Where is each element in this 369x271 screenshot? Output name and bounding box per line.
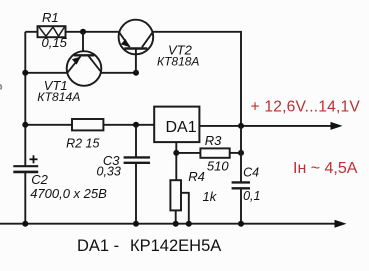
node: R4 on bottom line bbox=[173, 221, 179, 227]
node: C3 on bottom line bbox=[133, 221, 139, 227]
svg-text:0,33: 0,33 bbox=[97, 164, 121, 178]
label VT1 bbox=[44, 78, 68, 93]
svg-text:C2: C2 bbox=[31, 172, 48, 187]
op-amp U1: regulator DA1 bbox=[154, 107, 199, 143]
svg-text:C4: C4 bbox=[243, 165, 259, 179]
wire: R4 bottom lead bbox=[175, 210, 177, 223]
node: junction R3 / C4 rail bbox=[238, 150, 244, 156]
svg-text:КТ814А: КТ814А bbox=[37, 90, 80, 104]
svg-text:R3: R3 bbox=[205, 133, 222, 148]
label In ~ 4,5A bbox=[293, 160, 358, 177]
label R2 15 bbox=[66, 137, 99, 151]
label C3 bbox=[103, 153, 120, 168]
wire: bottom ground line with arrow bbox=[0, 220, 347, 228]
label KT818A bbox=[157, 55, 199, 69]
label KT814A bbox=[37, 90, 80, 104]
svg-text:+ 12,6V...14,1V: + 12,6V...14,1V bbox=[251, 99, 361, 116]
wire: input line rail to R2 bbox=[25, 124, 72, 126]
wire: left input rail upper segment bbox=[24, 32, 26, 166]
svg-text:КР142ЕН5А: КР142ЕН5А bbox=[130, 237, 221, 255]
label 510 bbox=[207, 159, 229, 174]
wire: C3 top lead bbox=[135, 125, 137, 157]
svg-text:КТ818А: КТ818А bbox=[157, 55, 199, 69]
node: junction VT2 collector / output bbox=[238, 123, 244, 129]
wire: C4 bottom lead bbox=[240, 188, 242, 223]
node: junction VT1 collector / VT2 base bbox=[133, 70, 139, 76]
wire: VT1 collector to VT2 base node bbox=[101, 72, 136, 74]
svg-text:0,1: 0,1 bbox=[243, 189, 260, 203]
label caption DA1 - KP142EH5A bbox=[77, 237, 221, 255]
wire: output rail down to C4 bbox=[240, 126, 242, 182]
node: R4 tap on bottom line bbox=[186, 221, 192, 227]
left scan edge artifact bbox=[0, 85, 1, 90]
label 0,1 bbox=[243, 189, 260, 203]
node: junction VT2 base line / input line bbox=[133, 122, 139, 128]
transistor VT2 bbox=[119, 20, 154, 73]
label R4 bbox=[188, 169, 205, 184]
label + of C2 bbox=[30, 155, 38, 163]
label C2 bbox=[31, 172, 48, 187]
resistor R2 bbox=[72, 119, 103, 130]
svg-text:DA1 -: DA1 - bbox=[77, 237, 119, 255]
label 0,15 bbox=[42, 35, 68, 50]
svg-text:4700,0 x 25В: 4700,0 x 25В bbox=[30, 186, 107, 201]
label 1k bbox=[203, 189, 218, 204]
wire: R2 to DA1 input bbox=[103, 124, 154, 126]
resistor R4 (trimmer with tap) bbox=[170, 180, 188, 224]
wire: C3 bottom lead bbox=[135, 163, 137, 224]
node: junction on rail at VT1 emitter bbox=[22, 70, 28, 76]
wire: DA1 ground pin bbox=[175, 142, 177, 180]
label C4 bbox=[243, 165, 259, 179]
wire: node to R3 bbox=[176, 152, 200, 154]
wire: R3 to output rail bbox=[230, 152, 241, 154]
node: junction DA1 gnd / R3 / R4 bbox=[173, 150, 179, 156]
svg-text:510: 510 bbox=[207, 159, 229, 174]
label 0,33 bbox=[97, 164, 121, 178]
svg-text:Iн ~ 4,5A: Iн ~ 4,5A bbox=[293, 160, 358, 177]
label +12,6V...14,1V bbox=[251, 99, 361, 116]
svg-text:R4: R4 bbox=[188, 169, 205, 184]
svg-text:1k: 1k bbox=[203, 189, 218, 204]
wire: rail to VT1 emitter bbox=[25, 72, 67, 74]
wire: VT2 collector to output corner bbox=[153, 32, 241, 126]
node: junction on rail at input line bbox=[22, 122, 28, 128]
svg-text:0,15: 0,15 bbox=[42, 35, 68, 50]
capacitor C3 bbox=[124, 157, 150, 162]
wire: left input rail lower segment (below C2) bbox=[24, 172, 26, 224]
capacitor C2 (electrolytic) bbox=[13, 166, 38, 172]
label VT2 bbox=[168, 42, 193, 57]
svg-text:DA1: DA1 bbox=[166, 119, 197, 136]
label 4700,0 x 25B bbox=[30, 186, 107, 201]
capacitor C4 bbox=[232, 182, 250, 188]
label R1 bbox=[42, 10, 59, 25]
transistor VT1 bbox=[67, 51, 102, 86]
resistor R3 bbox=[200, 148, 229, 157]
node: C2 on bottom line bbox=[22, 221, 28, 227]
svg-text:R2 15: R2 15 bbox=[66, 137, 99, 151]
wire: DA1 output line with arrow bbox=[199, 122, 342, 130]
label R3 bbox=[205, 133, 222, 148]
wire: VT1 base lead bbox=[82, 32, 84, 55]
resistor R1 bbox=[38, 26, 66, 37]
svg-text:R1: R1 bbox=[42, 10, 59, 25]
wire: top line from rail through R1 to VT2 emitter bbox=[25, 31, 118, 33]
node: C4 on bottom line bbox=[238, 221, 244, 227]
node A: junction R1 right / VT1 base / VT2 emitter bbox=[80, 29, 86, 35]
